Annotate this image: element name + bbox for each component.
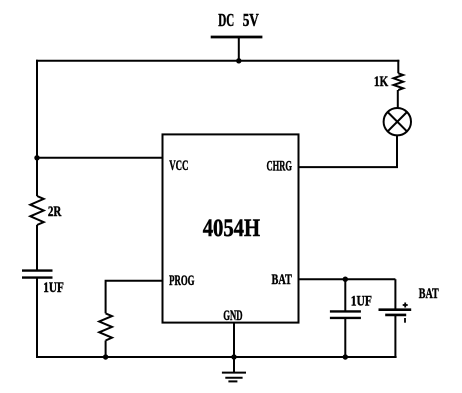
wire: left vertical lower segment: [36, 278, 38, 358]
wire: bottom rail: [36, 356, 397, 358]
svg-text:BAT: BAT: [419, 286, 439, 302]
wire: PROG pin wire: [106, 281, 164, 314]
svg-text:CHRG: CHRG: [267, 159, 293, 175]
svg-text:5V: 5V: [243, 10, 259, 30]
svg-text:PROG: PROG: [169, 273, 195, 289]
node: junction dot GND on bottom rail: [231, 354, 236, 359]
capacitor C 1UF (right): [330, 310, 361, 312]
wire: battery branch upper: [394, 279, 396, 310]
svg-text:1UF: 1UF: [43, 280, 64, 296]
svg-text:1K: 1K: [374, 74, 389, 90]
resistor R 1K: [397, 60, 399, 74]
svg-text:4054H: 4054H: [203, 215, 261, 242]
wire: DC stem from bar to top rail: [238, 37, 240, 61]
svg-text:VCC: VCC: [169, 158, 188, 174]
wire: cap branch upper: [344, 279, 346, 311]
battery BT plus plate: [379, 308, 412, 311]
node: junction dot PROG on bottom rail: [103, 354, 108, 359]
wire: VCC pin wire: [37, 157, 164, 159]
wire: top rail: [36, 60, 399, 62]
svg-text:GND: GND: [223, 308, 242, 324]
node: junction dot VCC tee: [34, 155, 39, 160]
node: junction dot DC feed on top rail: [236, 58, 241, 63]
svg-text:BAT: BAT: [272, 272, 292, 288]
battery BT minus plate: [385, 314, 406, 317]
wire: battery branch lower: [394, 315, 396, 358]
resistor R PROG: [99, 313, 112, 340]
wire: PROG resistor to bottom rail: [105, 341, 107, 358]
wire: BAT pin wire: [298, 278, 396, 280]
battery plus sign: [403, 304, 408, 306]
wire: cap branch lower: [344, 318, 346, 357]
wire: left vertical upper segment: [36, 60, 38, 196]
wire: GND stem: [233, 323, 235, 373]
resistor R 2R: [30, 196, 43, 225]
LED lamp D1 (circle with X): [384, 108, 411, 135]
node: junction dot cap on bottom rail: [343, 354, 348, 359]
wire: LED to CHRG pin: [298, 135, 398, 167]
svg-text:2R: 2R: [48, 204, 62, 220]
node: junction dot BAT cap tee: [343, 277, 348, 282]
svg-text:DC: DC: [218, 10, 234, 30]
ground symbol: [222, 372, 246, 374]
wire: left vertical between 2R and cap: [36, 225, 38, 271]
capacitor C 1UF (left): [22, 269, 53, 271]
power rail bar (DC 5V terminal): [211, 36, 263, 39]
IC U1 4054H body: [163, 134, 299, 322]
battery minus tick: [404, 318, 406, 323]
wire: 1K resistor to LED: [397, 90, 399, 108]
svg-text:1UF: 1UF: [351, 293, 372, 309]
